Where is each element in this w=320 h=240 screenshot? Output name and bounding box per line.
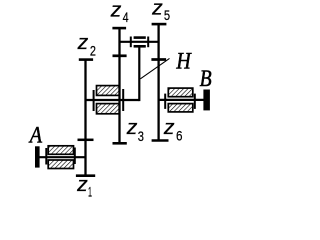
bearing B bottom block bbox=[168, 104, 193, 112]
bearing 2 left wall bbox=[93, 90, 95, 111]
gear z1 bottom rim bbox=[76, 174, 95, 177]
gear z4 / gear z3 common line bbox=[118, 28, 120, 143]
gear z6 bottom rim bbox=[152, 139, 169, 142]
shaft 2 bbox=[86, 99, 140, 101]
gear z2 / gear z1 common line bbox=[84, 60, 86, 177]
label z3 bbox=[126, 116, 144, 145]
gear z2 top rim bbox=[79, 58, 93, 61]
label z1 bbox=[76, 173, 92, 201]
H leader line bbox=[140, 58, 169, 78]
shaft B bbox=[159, 99, 204, 101]
bearing A bottom block bbox=[48, 160, 73, 169]
bearing B right wall bbox=[194, 94, 196, 109]
gear z5 top rim bbox=[152, 23, 167, 26]
svg-text:z: z bbox=[76, 173, 88, 196]
svg-text:z: z bbox=[110, 0, 122, 21]
planet axle bbox=[120, 41, 159, 43]
mesh z1-z2 bbox=[78, 139, 94, 142]
mesh z3-z4 bbox=[113, 54, 127, 57]
bearing A right wall bbox=[74, 148, 76, 165]
svg-text:6: 6 bbox=[176, 129, 183, 145]
svg-text:z: z bbox=[77, 31, 89, 54]
svg-text:z: z bbox=[151, 0, 163, 20]
carrier fork left tick bbox=[130, 37, 132, 48]
carrier fork right tick bbox=[147, 37, 149, 48]
svg-text:z: z bbox=[126, 116, 138, 139]
shaft B end cap bbox=[203, 90, 210, 111]
shaft A bbox=[37, 156, 86, 158]
label z2 bbox=[77, 31, 97, 59]
svg-text:1: 1 bbox=[88, 185, 92, 200]
shaft A end cap bbox=[35, 146, 40, 167]
label z6 bbox=[163, 116, 183, 145]
svg-text:2: 2 bbox=[90, 44, 96, 60]
mesh z5-z6 bbox=[151, 58, 166, 61]
gear z4 top rim bbox=[112, 27, 126, 30]
label z4 bbox=[110, 0, 129, 26]
bearing 2 bottom block bbox=[97, 104, 120, 114]
bearing A left wall bbox=[45, 148, 47, 165]
label z5 bbox=[151, 0, 170, 24]
svg-text:5: 5 bbox=[164, 8, 170, 24]
bearing 2 right wall bbox=[122, 89, 124, 111]
svg-text:A: A bbox=[28, 123, 43, 148]
svg-text:z: z bbox=[163, 116, 175, 139]
gear z5 / gear z6 common line bbox=[157, 24, 159, 140]
bearing 2 top block bbox=[97, 86, 120, 96]
carrier fork bottom bar bbox=[134, 45, 146, 48]
svg-text:3: 3 bbox=[138, 129, 144, 145]
svg-text:4: 4 bbox=[123, 10, 129, 26]
svg-text:B: B bbox=[200, 66, 212, 91]
svg-text:H: H bbox=[176, 49, 192, 74]
carrier fork top bar bbox=[134, 36, 146, 39]
gear z3 bottom rim bbox=[113, 142, 127, 145]
bearing B left wall bbox=[164, 94, 166, 109]
bearing B top block bbox=[168, 88, 193, 97]
carrier H upright bbox=[138, 48, 140, 102]
bearing A top block bbox=[48, 146, 73, 155]
